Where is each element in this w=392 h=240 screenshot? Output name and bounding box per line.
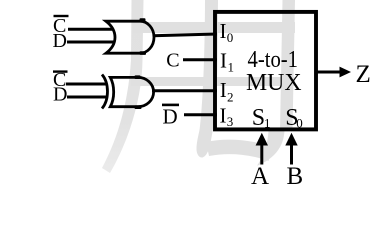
svg-text:A: A: [251, 163, 269, 190]
watermark hook below box: [257, 131, 285, 166]
xor-gate G2 bottom joint: [135, 105, 142, 109]
circuit (black): [66, 29, 341, 115]
xor-gate G2 top joint: [135, 75, 141, 79]
wire C-bar to XOR gate: [66, 83, 108, 86]
label C-bar lower: overline: [53, 70, 68, 72]
watermark horizontal band 2: [131, 77, 295, 86]
svg-text:1: 1: [264, 115, 271, 130]
svg-text:B: B: [287, 163, 304, 190]
arrowhead Z output: [340, 67, 352, 78]
svg-text:I: I: [220, 48, 227, 72]
svg-text:C: C: [166, 50, 179, 72]
watermark left falling stroke: [102, 0, 144, 173]
wire OR output to I0: [153, 34, 217, 36]
wire MUX output to Z: [316, 71, 341, 74]
wire C-bar to OR gate: [68, 28, 113, 31]
watermark character (light gray, behind circuit): [102, 0, 295, 173]
wire XOR output to I2: [152, 89, 217, 92]
or-gate G1 bottom joint: [140, 51, 147, 55]
or-gate G1 top joint: [140, 18, 146, 22]
xor-gate G2 input arc: [102, 75, 107, 109]
svg-text:2: 2: [227, 90, 234, 105]
or-gate G1: [106, 21, 154, 53]
svg-text:Z: Z: [356, 61, 371, 88]
wire D to XOR gate: [67, 96, 108, 99]
watermark bottom swoosh: [206, 140, 272, 161]
watermark horizontal band 1: [133, 22, 295, 33]
svg-text:I: I: [220, 19, 227, 43]
svg-text:D: D: [53, 84, 67, 106]
xor-gate G2 body: [110, 77, 153, 106]
svg-text:1: 1: [228, 59, 235, 74]
svg-text:D: D: [163, 105, 178, 129]
arrow B into S0: [290, 144, 293, 165]
wire C to I1: [183, 58, 217, 61]
MUX box U1: [215, 12, 316, 129]
wire D to OR gate: [67, 41, 114, 44]
svg-text:I: I: [220, 104, 227, 128]
label C-bar top: overline: [54, 15, 69, 17]
arrow A into S1: [260, 144, 263, 165]
svg-text:3: 3: [227, 114, 234, 129]
svg-text:I: I: [220, 78, 227, 102]
svg-text:0: 0: [227, 30, 234, 45]
label D-bar: overline: [162, 104, 179, 107]
svg-text:0: 0: [296, 115, 303, 130]
watermark right vertical stroke: [280, 0, 295, 131]
wire D-bar to I3: [184, 113, 217, 116]
watermark middle vertical stroke: [197, 0, 219, 158]
svg-text:D: D: [53, 30, 67, 52]
svg-text:MUX: MUX: [246, 70, 302, 96]
